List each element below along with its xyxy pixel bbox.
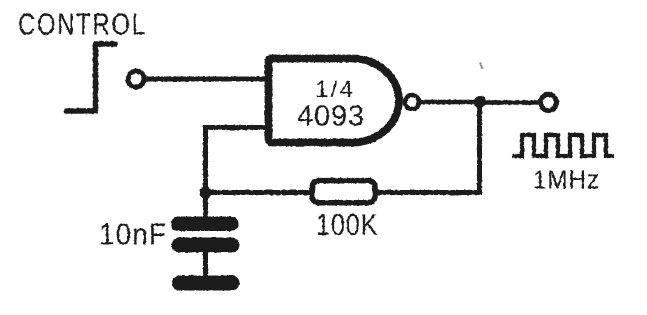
capacitor C1 plate 1 bbox=[171, 217, 239, 232]
svg-text:CONTROL: CONTROL bbox=[18, 7, 147, 42]
stray scan tick mark bbox=[480, 63, 483, 69]
wire bubble to junction bbox=[419, 100, 480, 105]
square wave symbol bbox=[512, 135, 614, 156]
output bubble bbox=[405, 95, 419, 109]
wire capacitor to ground bbox=[203, 251, 208, 277]
junction node dot at output bbox=[474, 96, 486, 108]
label CONTROL bbox=[18, 7, 147, 42]
control step waveform bbox=[67, 44, 116, 111]
svg-text:4093: 4093 bbox=[297, 100, 365, 132]
feedback wire horizontal to resistor bbox=[376, 190, 482, 195]
op-amp gate U1 NAND 4093 body bbox=[269, 59, 399, 143]
resistor value 100K bbox=[316, 208, 378, 242]
input terminal circle bbox=[128, 71, 144, 87]
svg-text:10nF: 10nF bbox=[99, 217, 167, 252]
resistor R1 body bbox=[312, 181, 375, 203]
svg-text:1/4: 1/4 bbox=[315, 78, 355, 103]
junction node dot A bbox=[200, 187, 212, 199]
wire gate input 2 horizontal bbox=[204, 125, 269, 130]
output terminal circle bbox=[541, 95, 557, 111]
feedback wire vertical from junction bbox=[477, 102, 482, 193]
gate label 1/4 bbox=[315, 78, 355, 103]
wire node A to capacitor bbox=[203, 193, 208, 220]
capacitor value 10nF bbox=[99, 217, 167, 252]
svg-text:100K: 100K bbox=[316, 208, 378, 242]
frequency label 1MHz bbox=[533, 166, 600, 195]
svg-text:1MHz: 1MHz bbox=[533, 166, 600, 195]
wire gate input 2 vertical bbox=[203, 125, 208, 193]
capacitor C1 plate 2 bbox=[172, 238, 240, 253]
wire input terminal to gate bbox=[147, 77, 269, 82]
wire resistor to node A bbox=[204, 190, 313, 195]
wire junction to output terminal bbox=[480, 100, 538, 105]
ground bar bbox=[172, 276, 240, 291]
